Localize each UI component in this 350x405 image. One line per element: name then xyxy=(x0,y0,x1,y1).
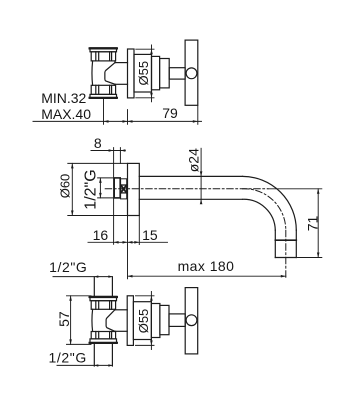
spout S1 horizontal pipe xyxy=(139,176,242,199)
svg-text:MAX.40: MAX.40 xyxy=(41,106,91,122)
dimension half inch G spout: dim line xyxy=(99,178,101,198)
valve V2 collar B xyxy=(160,305,169,334)
valve V1 top cap bar xyxy=(90,48,117,52)
svg-text:8: 8 xyxy=(94,135,102,151)
valve V2 top supply pipe xyxy=(94,277,112,297)
spout S1 bend inner arc xyxy=(243,199,276,230)
svg-text:Ø60: Ø60 xyxy=(57,174,72,199)
dimension D55 top: extension lines xyxy=(136,49,154,98)
dimension 57: extension lines xyxy=(67,296,92,345)
dimension 8: dim line xyxy=(91,150,125,152)
spout S1 tip end line xyxy=(275,257,296,259)
centerline extension to 71 dim xyxy=(268,188,322,190)
svg-text:1/2"G: 1/2"G xyxy=(83,169,100,209)
dimension D60: dim line xyxy=(71,163,73,215)
svg-text:max 180: max 180 xyxy=(178,258,235,274)
dimension D24: dim line xyxy=(200,148,202,201)
dimension 71: dim line xyxy=(317,189,319,258)
dimension D55 bottom: extension lines xyxy=(136,296,155,346)
valve V1 cross handle bar xyxy=(185,40,198,105)
spout S1 vertical pipe xyxy=(275,230,296,257)
spout S1 aerator joint line xyxy=(275,239,296,241)
spout S1 escutcheon plate xyxy=(128,163,140,215)
dimension half inch G spout: extension lines xyxy=(98,178,113,198)
spout S1 nipple neck xyxy=(121,179,127,199)
dimension 71: extension line bottom xyxy=(298,257,322,259)
dimension half inch G spout: arrows xyxy=(99,178,102,198)
valve V2 collar A xyxy=(151,304,160,338)
dimension 71: arrows xyxy=(317,189,320,258)
valve V2 bottom cap bar xyxy=(90,339,117,344)
valve V1 bottom cap knurled section xyxy=(91,85,115,94)
dimension 15: arrows xyxy=(128,241,140,244)
centerline horizontal dash-dot xyxy=(105,188,268,190)
dimension max 180: dim line xyxy=(128,275,286,277)
valve V2 handle stem xyxy=(169,314,185,327)
dimension D55 top: dim line xyxy=(151,45,153,102)
centerline bend arc dash-dot xyxy=(243,189,286,230)
svg-text:1/2"G: 1/2"G xyxy=(49,350,87,366)
dimension D60: arrows xyxy=(71,163,74,215)
dimension half inch G top of valve V2: leader and arrows xyxy=(53,275,112,278)
dimension D55 bottom: dim line xyxy=(150,292,152,350)
svg-text:71: 71 xyxy=(304,216,320,232)
dimension 16: arrows xyxy=(114,241,128,244)
valve V1 connecting pipe to wall xyxy=(115,63,128,85)
valve V2 handle hub circle xyxy=(186,315,197,326)
valve V1 body xyxy=(92,61,115,85)
dimension 8: extension lines xyxy=(114,148,121,245)
valve V2 connecting pipe to wall xyxy=(115,310,127,332)
spout S1 nipple cross fitting xyxy=(121,185,127,193)
valve V1 wall plate xyxy=(128,49,135,98)
valve V2 bottom supply pipe xyxy=(94,343,112,366)
valve V1 top cap knurled section xyxy=(91,52,115,61)
dimension 57: arrows xyxy=(69,296,72,345)
valve V1 collar A xyxy=(152,56,160,89)
dimension 16 and 15: extension lines xyxy=(128,216,140,279)
svg-text:MIN.32: MIN.32 xyxy=(41,90,86,106)
valve V2 body xyxy=(92,309,115,331)
dimension MIN32 MAX40: arrows xyxy=(104,120,128,123)
valve V1 bottom cap bar xyxy=(90,94,117,98)
dimension D24: arrows xyxy=(200,171,203,204)
valve V1 collar B xyxy=(160,59,170,88)
centerline vertical dash-dot xyxy=(285,230,287,279)
valve V1 handle stem xyxy=(169,68,185,79)
valve V2 wall plate xyxy=(127,296,133,346)
spout S1 escutcheon extension lines D60 xyxy=(68,163,128,215)
spout S1 threaded nipple xyxy=(114,178,120,198)
svg-text:1/2"G: 1/2"G xyxy=(49,259,87,275)
valve V2 top cap knurled section xyxy=(91,301,115,310)
dimension 8: arrows xyxy=(109,149,126,152)
dimension D55 top: arrows xyxy=(150,49,153,98)
svg-text:ø24: ø24 xyxy=(185,148,201,172)
dimension 79: arrows xyxy=(128,120,198,123)
svg-text:15: 15 xyxy=(142,227,158,243)
svg-text:Ø55: Ø55 xyxy=(136,61,151,86)
valve V2 cross handle bar xyxy=(185,288,198,354)
valve V2 flange xyxy=(133,302,151,340)
svg-text:Ø55: Ø55 xyxy=(136,309,151,334)
spout S1 bend outer arc xyxy=(243,176,297,230)
dimension 57: dim line xyxy=(70,296,72,345)
valve V1 handle hub circle xyxy=(186,68,197,79)
dimension max 180: arrows xyxy=(128,275,286,278)
dimension half inch G bottom of valve V2: leader and arrows xyxy=(57,364,112,367)
svg-text:16: 16 xyxy=(93,227,109,243)
valve V1 flange xyxy=(134,54,152,92)
valve V2 bottom cap knurled section xyxy=(91,332,115,339)
dimension 16 and 15: dim line xyxy=(88,241,168,243)
dimension D55 bottom: arrows xyxy=(150,296,153,346)
valve V2 top cap bar xyxy=(90,296,117,300)
svg-text:57: 57 xyxy=(56,311,72,327)
dimension 79: extension lines xyxy=(104,99,198,125)
svg-text:79: 79 xyxy=(162,105,178,121)
dimension MIN32 MAX40 and 79: dim line xyxy=(33,120,202,122)
